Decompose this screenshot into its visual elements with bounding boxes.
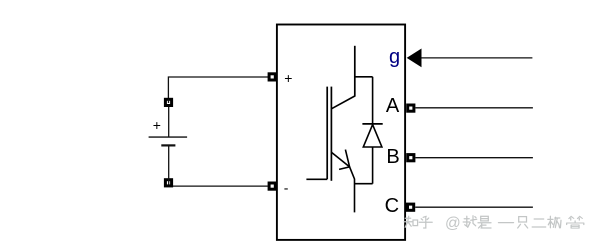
svg-text:A: A	[386, 95, 400, 117]
watermark char yi	[499, 222, 514, 224]
IGBT Q1 emitter arrow barb lower	[339, 167, 350, 170]
battery B1 top terminal connector	[164, 98, 173, 107]
svg-text:B: B	[386, 146, 399, 168]
diode D1 cathode lead	[372, 77, 374, 124]
watermark char zhi	[404, 216, 417, 227]
block - port square	[268, 182, 277, 191]
wire: battery plus to block + port	[168, 77, 268, 99]
watermark char hu	[419, 216, 432, 228]
battery B1 negative plate (short)	[161, 144, 175, 146]
IGBT Q1 emitter diagonal and lead	[331, 152, 354, 212]
IGBT Q1 collector diagonal	[331, 96, 354, 109]
svg-text:+: +	[284, 70, 292, 86]
IGBT Q1 gate bar (left)	[326, 87, 328, 180]
watermark char zhi2	[518, 217, 528, 228]
diode D1 cathode bar	[362, 123, 382, 125]
line C	[415, 206, 533, 208]
battery B1 top terminal wire	[168, 99, 170, 103]
wire: emitter to diode anode	[355, 183, 373, 185]
port B square	[406, 153, 415, 162]
watermark char er	[532, 219, 546, 227]
IGBT Q1 body bar (right)	[330, 87, 332, 181]
port C square	[406, 203, 415, 212]
diode D1 triangle	[363, 125, 382, 147]
watermark	[404, 216, 584, 228]
svg-text:g: g	[389, 46, 400, 68]
block + port square	[268, 72, 277, 81]
IGBT Q1 gate wire	[306, 178, 327, 180]
svg-text:+: +	[153, 117, 161, 133]
port A square	[406, 104, 415, 113]
IGBT Q1 collector lead	[354, 46, 356, 97]
svg-text:-: -	[284, 179, 289, 195]
wire: collector to diode cathode	[355, 76, 373, 78]
battery B1 bottom terminal wire	[168, 145, 170, 184]
svg-text:C: C	[385, 195, 399, 217]
svg-text:@: @	[445, 215, 461, 232]
watermark char guan	[567, 216, 584, 228]
bridge block U1 outline	[277, 25, 405, 240]
watermark char shi	[478, 216, 491, 228]
signal line g	[422, 57, 533, 59]
line A	[415, 107, 533, 109]
battery B1 bottom terminal connector	[164, 178, 173, 187]
watermark char ji	[548, 216, 561, 228]
IGBT Q1 emitter arrow barb upper	[345, 150, 349, 167]
diode D1 anode lead	[372, 147, 374, 184]
signal arrow into g	[407, 49, 422, 68]
wire: battery minus to block - port	[173, 185, 268, 187]
battery B1 positive plate (long)	[149, 136, 188, 138]
line B	[415, 157, 533, 159]
watermark char wo	[463, 216, 477, 228]
